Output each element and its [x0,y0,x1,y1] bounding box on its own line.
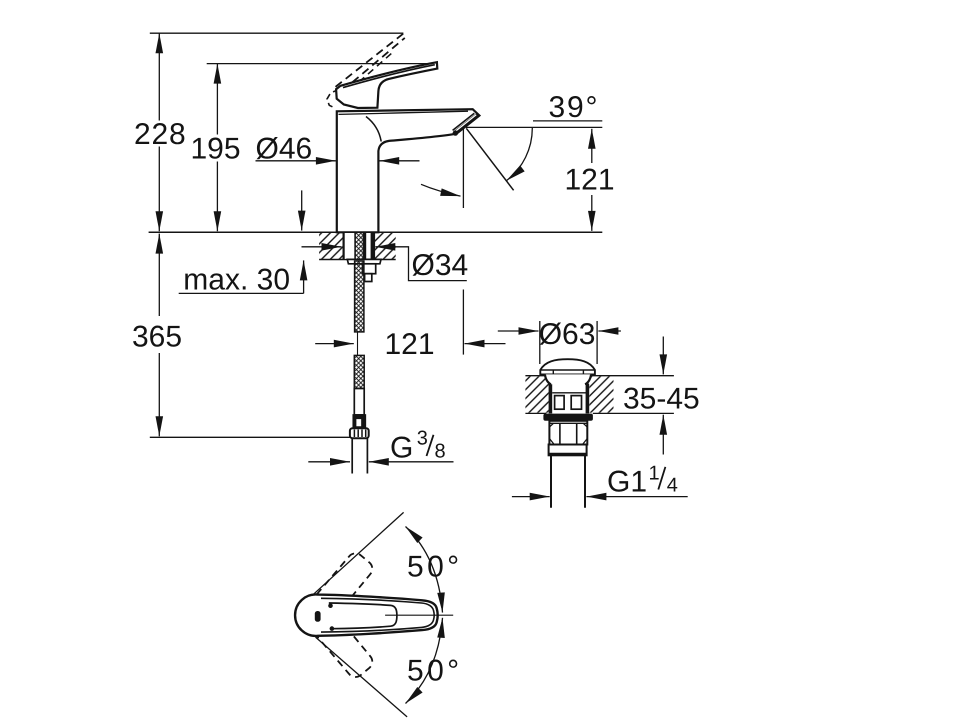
top view slot [315,611,321,622]
50deg ray lower [316,637,408,717]
drain window left [555,396,565,410]
svg-text:max. 30: max. 30 [183,263,290,296]
50deg arc lower [406,618,443,704]
supply pipe [352,438,367,473]
spout level reference line [466,126,602,128]
washer bottom thick edge [549,453,587,456]
drain nut top band line [549,422,587,424]
hose lower braid [354,355,364,388]
raised handle dashed line 2 [343,38,405,91]
dimension D63 left arrow [498,330,539,332]
svg-text:Ø63: Ø63 [539,318,596,351]
dimension G38 right arrow [369,461,454,463]
drain dome cap [540,359,595,374]
dimension 121 right lower segment [591,195,593,231]
handle blade inner line [343,65,435,88]
drain nut facets [560,424,577,445]
drain counter top line [525,375,674,377]
raised handle dashed line 1 [336,34,404,87]
spout tip extension line upper [462,128,464,208]
mounting flange [347,259,381,263]
max30 lower leader arrow [303,260,305,293]
top view dot upper [328,603,333,608]
spout inner curve [366,117,381,142]
50deg arc upper [406,527,443,613]
raised handle dashed neck edge [363,82,371,102]
shank hose braid [355,232,363,259]
drain counter hatch right [589,376,613,412]
G38 fraction slash [427,435,434,456]
shank tube [343,233,374,259]
drain counter hatch left [525,376,549,412]
dimension 121 middle right arrow [465,343,506,345]
drain nut chamfers [549,423,587,444]
spout top inner edge [339,111,469,114]
raised handle dashed line 3 [359,53,393,83]
svg-text:195: 195 [191,133,241,166]
dimension 365 line upper segment [158,234,160,316]
shank step 2 [365,274,372,282]
spout tip extension line lower [462,290,464,355]
connector ribs [354,430,365,438]
dimension D46 left arrow [256,160,336,162]
handle lever [336,62,437,108]
G114 fraction slash [658,467,665,490]
drain head white fill [545,374,591,413]
drain body step lines [549,383,589,385]
drain washer band [549,445,587,456]
svg-text:50°: 50° [407,551,463,584]
counter top line [149,231,603,233]
extension line top (228) [150,32,404,34]
svg-text:1: 1 [649,462,660,484]
aerator end blob [453,130,458,135]
max30 underline [179,292,304,294]
raised handle dashed front polygon [327,90,339,108]
drain counter bottom line [525,412,674,414]
svg-text:35-45: 35-45 [623,382,700,415]
svg-text:365: 365 [132,321,182,354]
svg-text:G: G [390,431,413,464]
dome rim ticks [553,370,583,375]
svg-text:39°: 39° [549,91,600,124]
shank second tube lines [364,232,367,259]
dimension 121 middle left arrow [315,343,354,345]
dimension 3545 lower arrow [662,415,664,455]
shank inner wall [354,233,356,259]
dimension D34 left arrow [302,246,342,248]
dimension 195 line lower segment [216,162,218,232]
top view handle inner outline [329,603,397,629]
counter hatch right block [374,233,395,259]
top view solid handle [295,595,438,636]
top view dot lower [330,626,335,631]
hose upper braid [355,261,364,332]
svg-text:G1: G1 [607,465,647,498]
39deg underline [533,120,602,122]
top view lever rim line [321,598,434,632]
water stream line [466,128,513,190]
svg-text:121: 121 [385,328,435,361]
hose nut window [357,419,361,426]
dimension 228 line upper segment [158,33,160,120]
svg-text:8: 8 [435,440,446,462]
dimension 195 line upper segment [216,64,218,135]
drain window right [571,396,581,410]
dimension G38 left arrow [308,461,350,463]
svg-text:3: 3 [417,428,428,450]
dimension 365 line lower segment [158,353,160,436]
spout swivel arc arrow [421,184,461,196]
top view dashed lever lower [317,618,376,681]
aerator highlight streak [455,115,477,132]
hose break centerline [357,333,359,356]
dome rim line [540,369,595,371]
50deg ray upper [312,512,404,595]
39deg arc arrow [507,128,533,181]
svg-text:228: 228 [134,118,186,151]
drain window band line [552,392,586,394]
max30 upper leader arrow [301,190,303,230]
hose nut [353,415,365,428]
drain neck [545,375,591,385]
aerator mousseur band [455,116,477,133]
faucet body [337,109,480,232]
dimension G114 left arrow [512,496,550,498]
dimension 228 line lower segment [158,147,160,232]
dimension D63 right arrow [598,330,621,332]
dimension 121 right upper segment [591,129,593,163]
shank step 1 [363,264,376,274]
top view centerline [385,614,453,616]
counter hatch left block [319,233,343,259]
extension line 195 level [207,63,435,65]
hose end reference line [150,436,350,438]
counter bottom line [319,259,396,261]
hose smooth tube [354,389,364,415]
aerator upper edge line [453,113,475,130]
dimension G114 right arrow [586,496,687,498]
dimension D34 right arrow with leader [375,247,467,281]
drain body walls [550,384,587,413]
D63 extension lines [540,321,597,364]
svg-text:50°: 50° [407,654,463,687]
svg-text:121: 121 [565,164,615,197]
top view dashed lever upper [317,550,376,613]
drain tailpipe [551,455,585,507]
drain nut [549,421,587,445]
svg-text:Ø34: Ø34 [412,249,469,282]
G38 knurled connector [350,428,369,438]
svg-text:4: 4 [667,475,678,497]
drain flange [543,414,593,421]
dimension 3545 upper arrow [662,337,664,375]
dimension D46 right arrow [379,160,419,162]
